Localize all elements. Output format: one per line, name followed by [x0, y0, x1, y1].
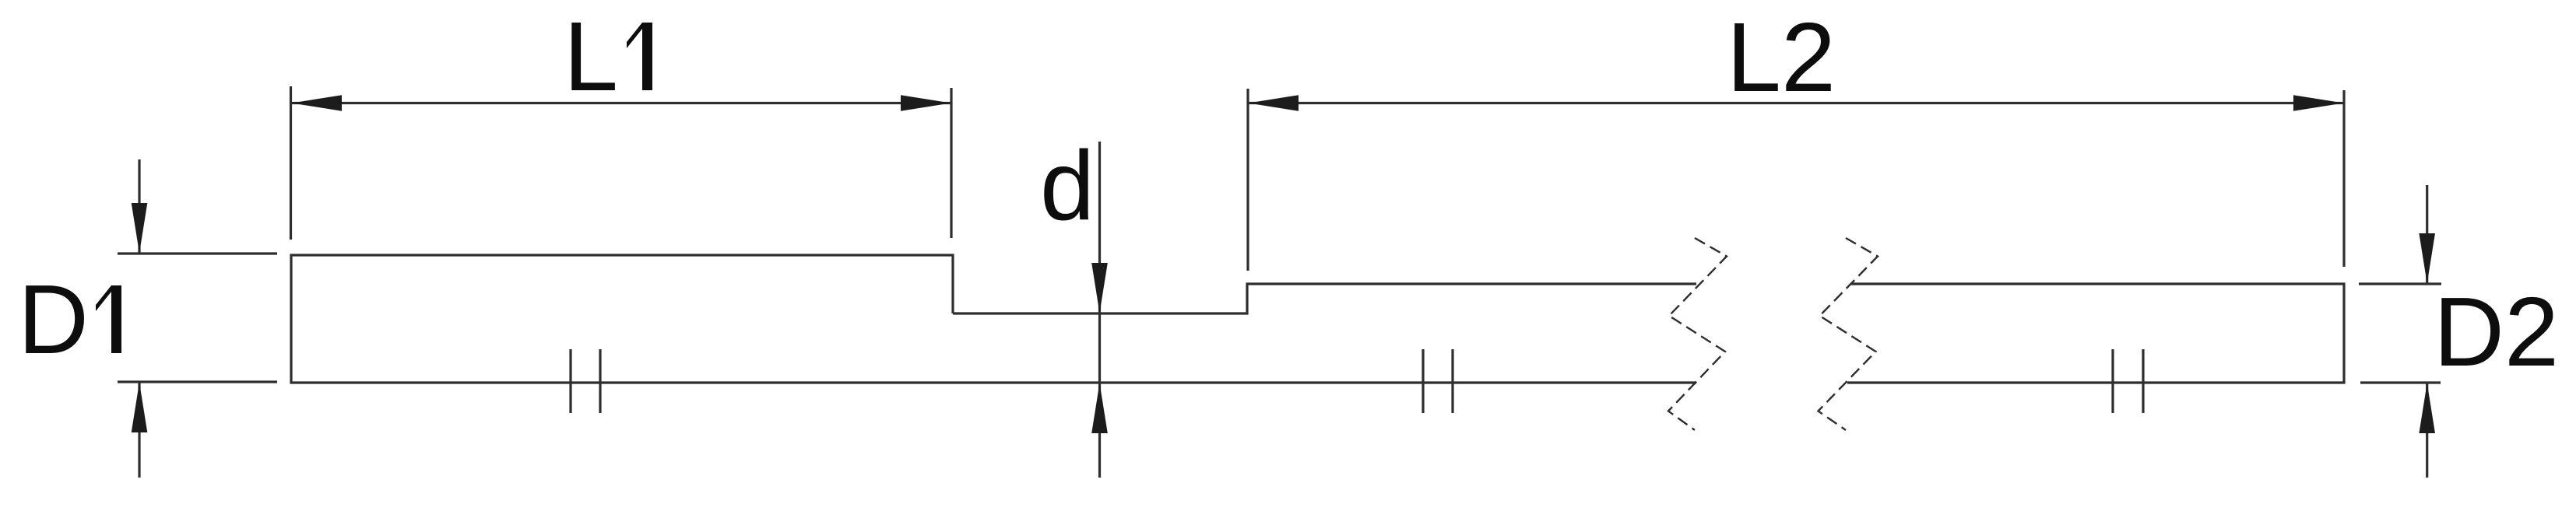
svg-text:L: L [564, 2, 618, 111]
svg-text:D2: D2 [2434, 277, 2559, 387]
svg-text:D: D [18, 264, 89, 374]
svg-text:L2: L2 [1727, 2, 1836, 112]
svg-text:d: d [1040, 131, 1095, 240]
